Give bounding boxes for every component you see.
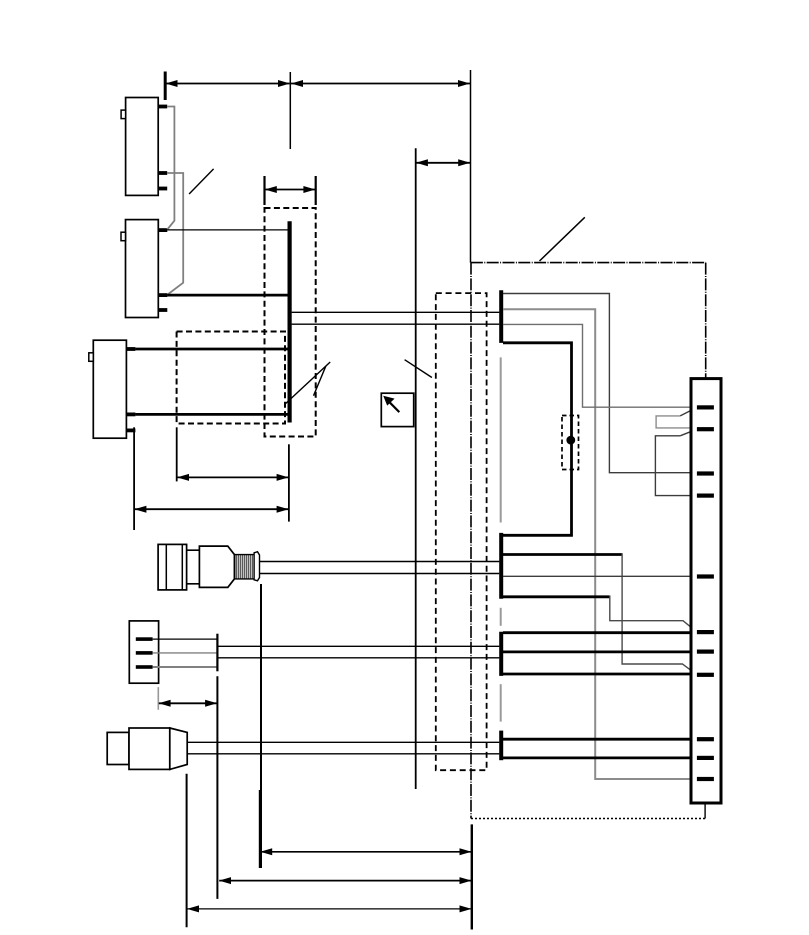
leader to modules [189,169,214,194]
connector bar B2 gray bridge 2 [500,608,502,626]
dashed box DB2 [177,332,285,424]
wire W1 bar2 to pin3 [503,294,697,473]
wire M2 pin2 to bar1 [167,294,289,297]
terminal block cable pair to bar2 [218,645,500,647]
connector bar B2 segment 3 [499,632,503,676]
splice dashed box [562,416,579,470]
view arrow [389,401,400,412]
terminal pin 10 [697,756,714,760]
splice dot [566,436,575,445]
terminal pin 8 [697,673,714,677]
wire W7 bar2 to pin6 direct [503,631,697,634]
extension tick x264 [263,176,265,205]
module M3 body [93,340,126,438]
terminal block pin 1 [136,637,153,641]
module M2 body [126,220,159,318]
unit boundary right edge upper [705,263,707,379]
wire M3 pin1 to bar1 [135,348,289,351]
module M3 pin 1 [126,347,135,351]
dimension M [159,700,218,707]
extension tick x134 [133,427,135,530]
terminal block wire 2 [153,652,217,654]
terminal block wire 3 [153,666,217,668]
dimension A [260,848,471,855]
leader to box DB1 b [314,366,326,396]
wire W11 bar2 to pin10 direct [503,757,697,760]
leader to middle dashed box [405,360,432,378]
terminal pin 3 [697,471,714,475]
unit boundary bottom edge [471,818,705,820]
wire W3 bar2 to pin1 [503,324,697,407]
connector bar B1 [288,221,292,422]
dimension T4 [265,186,316,193]
wire W10 bar2 to pin9 direct [503,738,697,741]
pass-through wire a [292,311,500,313]
unit boundary right edge below strip [704,804,706,818]
module M1 pin 1 [158,105,167,109]
extension tick x471 bottom [471,824,473,929]
dimension T3 [416,159,470,166]
plug P1 cable pair [260,561,500,563]
wire M2 pin1 to bar1 [167,229,289,231]
module M2 pin 1 [158,228,167,232]
module M1 pin 3 [158,187,167,191]
wire W9 bar2 to pin8 direct [503,673,697,676]
connector bar B2 segment 2 [499,533,503,599]
extension tick x288 [288,444,290,521]
connector bar B2 segment 4 [499,731,503,761]
plug P2 cable pair [188,741,499,743]
connector bar B2 segment 1 [499,290,503,343]
wire W12 bar2 to pin5 [503,575,697,577]
module M2 pin 2 [158,293,167,297]
terminal block wire 1 [153,638,217,640]
module M3 tab [89,353,94,362]
terminal pin 6 [697,630,714,634]
plug P1 collar [187,550,200,584]
extension line x470 upper [470,70,472,263]
extension line x217 lower [216,676,218,899]
extension tick x158 gray [157,687,159,710]
terminal block pin 3 [136,665,153,669]
dimension D1 [177,474,289,481]
module M1 pin 2 [158,171,167,175]
connector bar B2 gray bridge 1 [500,357,502,522]
dimension D2 [134,506,288,513]
extension tick x165 top [164,72,167,101]
unit boundary top edge [471,262,706,264]
jumper J2 pin2-pin4 [655,436,697,496]
view arrow box [381,393,413,426]
connector bar B2 gray bridge 3 [500,684,502,721]
terminal pin 11 [697,777,714,781]
extension tick x290 top [289,72,291,149]
wire M3 pin2 to bar1 [135,413,289,416]
extension tick x259 lower end [259,790,261,868]
middle dashed box (bulkhead) [436,293,487,770]
extension line x261 [260,584,262,868]
leader to bar1 a [285,362,330,404]
dashed box DB1 [265,208,316,437]
plug P1 body [199,546,234,587]
terminal pin 2 [697,427,714,431]
wire W5 bar2 to pin8 [503,553,622,556]
pass-through wire b [292,323,500,325]
wire W4 thick loop [503,343,572,536]
plug P1 end cap [254,552,259,581]
module M2 tab [121,232,126,241]
terminal block pin 2 [136,651,153,655]
wire gray M1 pin2 to M2 pin2 [167,173,183,295]
jumper J1 pin1-pin2 [656,416,692,428]
wire gray M1 pin1 to M2 pin1 [167,107,174,230]
wire W6 bar2 to pin6 [503,595,610,598]
module M2 pin 3 [158,308,167,312]
dimension B [219,877,472,884]
module M3 pin 2 [126,413,135,417]
plug P2 body [129,728,170,769]
module M3 pin 3 [126,429,135,433]
terminal pin 9 [697,737,714,741]
terminal block TB body [129,621,158,683]
dimension T2 [291,80,470,87]
extension line x186 [186,774,188,927]
terminal pin 4 [697,494,714,498]
wire W2 bar2 to pin11 [503,309,697,779]
dimension C [187,905,472,912]
terminal pin 5 [697,574,714,578]
terminal pin 7 [697,650,714,654]
extension tick x315 [315,176,317,205]
wire W8 bar2 to pin7 direct [503,651,697,654]
extension line x217 upper [216,634,218,672]
unit boundary left edge [470,263,472,819]
module M1 body [126,98,159,196]
dimension T1 [166,80,291,87]
plug P1 barrel [158,544,187,590]
plug P1 barrel ridge lines [165,544,167,590]
module M1 tab [121,110,126,119]
terminal strip body [691,379,721,803]
extension line x415 long [415,148,417,789]
terminal pin 1 [697,405,714,409]
plug P2 rear [107,732,129,764]
plug P1 threads [234,555,254,579]
extension tick x176 [176,427,178,481]
leader to unit boundary [540,217,585,261]
plug P2 nose [170,728,187,769]
